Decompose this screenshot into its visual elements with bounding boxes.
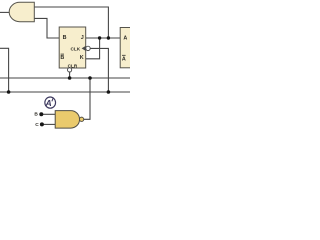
input terminal dot C <box>40 122 44 126</box>
svg-text:B: B <box>63 35 67 41</box>
wire: clock rail (CLK net) <box>0 91 130 93</box>
node A-prime annotation circle <box>45 97 56 108</box>
svg-text:K: K <box>80 55 84 61</box>
nand-gate U4 body <box>55 111 79 129</box>
svg-text:A: A <box>122 56 126 62</box>
junction dot: FF C clock stub on clock rail <box>7 90 11 94</box>
input terminal dot B <box>39 112 43 116</box>
junction dot: CLK drop on clock rail <box>107 90 111 94</box>
wire: J to K tie (node vertical) and K pin wire <box>86 38 100 59</box>
wire: CLK bubble to clock rail <box>90 48 108 92</box>
wire: top rail from AND top input to A output riser, down to J line <box>34 7 108 38</box>
wire: AND gate output to left edge <box>0 11 9 13</box>
svg-text:A: A <box>123 35 127 41</box>
flip-flop U3 body (A flip-flop, clipped at right edge) <box>120 28 134 68</box>
junction dot: J/K tie on J line <box>98 36 101 39</box>
svg-text:J: J <box>81 35 84 41</box>
wire: CLR bubble drop to clear rail <box>69 72 71 78</box>
NAND output bubble <box>79 117 83 121</box>
svg-text:C: C <box>35 122 39 128</box>
clock edge triangle U1 <box>82 46 86 51</box>
flip-flop U1 body (B flip-flop) <box>59 27 85 68</box>
and-gate U2 (mirrored, points left) <box>9 2 34 21</box>
CLK inversion bubble U1 <box>86 46 90 50</box>
wire: NAND input C <box>42 123 55 125</box>
CLR inversion bubble U1 <box>68 68 72 72</box>
junction dot: A output riser on J line <box>107 36 110 39</box>
svg-text:CLK: CLK <box>70 46 80 51</box>
svg-text:B: B <box>34 111 38 117</box>
wire: off-screen flip-flop C clock stub to clock rail <box>0 48 9 92</box>
svg-text:B: B <box>60 55 64 61</box>
svg-text:A: A <box>44 98 51 108</box>
junction dot: CLR drop on clear rail <box>68 76 72 80</box>
wire: NAND input B <box>41 113 55 115</box>
junction dot: NAND riser on clear rail <box>88 76 92 80</box>
wire: clear rail (CLR net) <box>0 77 130 79</box>
wire: NAND output riser to clear rail <box>84 78 90 119</box>
wire: J line from flip-flop B to flip-flop A <box>86 37 121 39</box>
wire: AND bottom input staircase to B output pin <box>34 18 59 38</box>
